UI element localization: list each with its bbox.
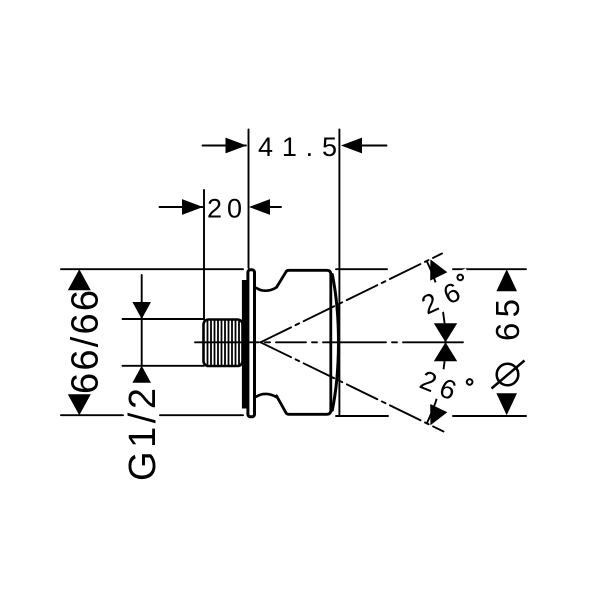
svg-text:G1/2: G1/2 bbox=[122, 388, 164, 481]
upper angle arrow at ray bbox=[430, 259, 447, 280]
lower angle arrow at centerline bbox=[434, 342, 457, 361]
top extension line left (y=269) bbox=[61, 268, 243, 270]
extension line X2 (wall face, x=248.5) bbox=[248, 130, 250, 269]
escutcheon dark bar bbox=[242, 280, 247, 409]
dimension 66/66 bottom arrow bbox=[68, 394, 91, 415]
centerline (dash-dot) bbox=[195, 341, 463, 343]
neck top curve bbox=[257, 287, 277, 290]
spray face bulge bbox=[332, 275, 338, 411]
top extension line right (y=269) bbox=[336, 268, 387, 270]
dimension 41.5 left arrow bbox=[226, 138, 247, 154]
dimension G1/2 bottom arrow bbox=[132, 366, 151, 383]
diameter symbol bbox=[492, 361, 525, 389]
dimension G1/2 shaft bbox=[141, 275, 143, 366]
lower spray ray 26 deg bbox=[261, 342, 444, 431]
text 26 deg upper bbox=[413, 268, 479, 322]
upper angle arrow at centerline bbox=[434, 323, 457, 342]
dimension 20 left tail bbox=[160, 206, 203, 208]
extension line X3 (front face, x=340.5) bbox=[338, 130, 340, 417]
wall flange plate bbox=[248, 270, 255, 417]
body outline (cone + cylinder) bbox=[277, 270, 331, 414]
dimension G1/2 top arrow bbox=[132, 302, 151, 319]
dimension 20 right arrow bbox=[249, 199, 270, 215]
dimension 20 left arrow bbox=[182, 199, 203, 215]
lower angle arc bbox=[427, 342, 446, 423]
upper angle arc bbox=[427, 261, 446, 342]
thread hatching bbox=[208, 321, 240, 365]
dimension 41.5 right arrow bbox=[341, 138, 362, 154]
upper spray ray 26 deg bbox=[261, 254, 443, 343]
neck bottom curve bbox=[257, 394, 277, 397]
dimension 41.5 left tail bbox=[203, 145, 247, 147]
lower angle arrow at ray bbox=[430, 404, 447, 425]
bottom extension line right (y=415) bbox=[336, 415, 388, 417]
dimension 41.5 right tail bbox=[362, 145, 387, 147]
thread extension line bottom (y=366) bbox=[123, 365, 205, 367]
dimension diameter 65 top arrow bbox=[496, 269, 517, 291]
dimension 20 right tail bbox=[267, 206, 281, 208]
bottom extension line left (y=415) bbox=[61, 414, 123, 416]
extension line X1 (thread end, x=204) bbox=[203, 190, 205, 320]
text 26 deg lower bbox=[413, 361, 479, 413]
thread extension line top (y=319) bbox=[123, 318, 205, 320]
dimension 66/66 top arrow bbox=[68, 269, 91, 290]
svg-text:66/66: 66/66 bbox=[65, 290, 107, 394]
dimension diameter 65 bottom arrow bbox=[496, 393, 517, 415]
thread pipe G1/2 bbox=[204, 320, 243, 367]
